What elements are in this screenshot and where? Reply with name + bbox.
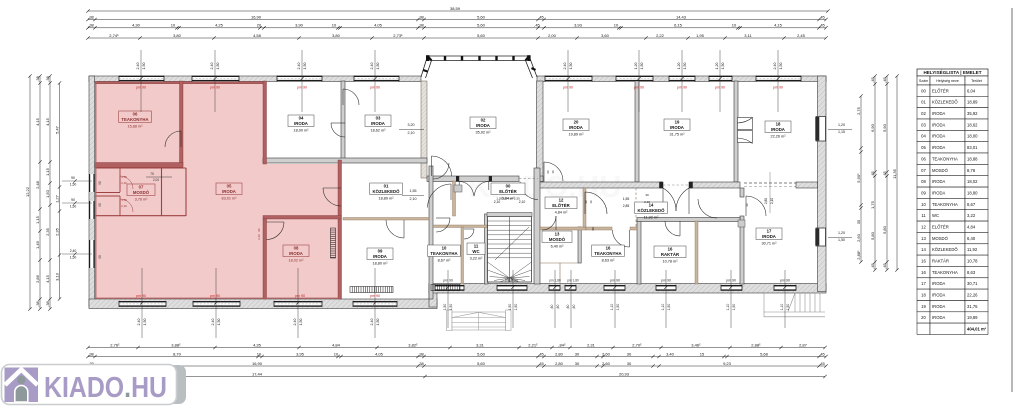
svg-text:ELŐTÉR: ELŐTÉR <box>932 225 949 230</box>
svg-text:05: 05 <box>921 145 926 150</box>
svg-text:10,78: 10,78 <box>967 259 978 264</box>
radiator room 10 <box>431 285 460 291</box>
svg-text:16: 16 <box>921 270 926 275</box>
svg-text:,38: ,38 <box>418 351 424 356</box>
svg-text:30: 30 <box>627 361 632 366</box>
bottom wall windows left section <box>119 301 166 307</box>
svg-text:2,10: 2,10 <box>121 181 127 185</box>
svg-text:2,45: 2,45 <box>797 33 806 38</box>
room 16 teakonyha label <box>592 245 625 257</box>
svg-text:4,15: 4,15 <box>45 117 50 126</box>
svg-text:30: 30 <box>627 351 632 356</box>
bottom dimension chain row B <box>88 356 826 358</box>
svg-text:,38: ,38 <box>418 361 424 366</box>
red wall between 05 and 04 <box>263 81 267 164</box>
svg-text:22,26 m²: 22,26 m² <box>771 134 787 138</box>
svg-text:30,71: 30,71 <box>967 281 978 286</box>
svg-text:3,22 m²: 3,22 m² <box>470 256 484 260</box>
svg-text:9,23: 9,23 <box>723 361 732 366</box>
svg-text:10: 10 <box>614 23 619 28</box>
room 02 iroda label <box>470 117 496 129</box>
svg-text:WC: WC <box>472 249 479 254</box>
top dimension chain row 2 <box>88 19 826 21</box>
svg-text:IRODA: IRODA <box>371 121 385 126</box>
svg-text:1,20: 1,20 <box>634 63 638 70</box>
svg-text:2,87: 2,87 <box>799 342 808 347</box>
svg-text:15,88 m²: 15,88 m² <box>128 124 144 128</box>
svg-text:2,40: 2,40 <box>293 319 297 326</box>
svg-text:10: 10 <box>551 170 555 174</box>
svg-text:6,04: 6,04 <box>967 88 976 93</box>
svg-text:1,50: 1,50 <box>449 304 453 311</box>
svg-text:1,27: 1,27 <box>55 194 60 203</box>
svg-text:WC: WC <box>932 213 939 218</box>
partition right of raktar <box>695 221 698 284</box>
svg-text:RAKTÁR: RAKTÁR <box>661 252 680 257</box>
svg-text:KÖZLEKEDŐ: KÖZLEKEDŐ <box>638 208 666 213</box>
wall between 16 teakonyha and 15 raktar <box>637 221 641 284</box>
left wall window dimensions <box>62 180 92 182</box>
svg-text:00: 00 <box>921 88 926 93</box>
room 13 mosdo label <box>542 231 572 243</box>
svg-text:3,80: 3,80 <box>173 33 182 38</box>
svg-text:83,01 m²: 83,01 m² <box>222 196 238 200</box>
svg-text:1,50: 1,50 <box>779 63 783 70</box>
svg-text:1,50: 1,50 <box>667 304 671 311</box>
svg-text:3,60: 3,60 <box>601 33 610 38</box>
wall between 13 and 16 teakonyha <box>578 227 581 263</box>
svg-text:2,75: 2,75 <box>856 106 861 115</box>
svg-text:2,48: 2,48 <box>35 180 40 189</box>
svg-text:IRODA: IRODA <box>932 134 945 139</box>
svg-text:IRODA: IRODA <box>932 315 945 320</box>
svg-text:2,21⁵: 2,21⁵ <box>528 342 538 347</box>
svg-text:4,15: 4,15 <box>774 23 783 28</box>
svg-text:04: 04 <box>921 134 926 139</box>
svg-text:10: 10 <box>334 351 339 356</box>
svg-text:5,60: 5,60 <box>477 361 486 366</box>
wall between rooms 20 and 19 <box>635 81 639 182</box>
svg-text:IRODA: IRODA <box>222 189 236 194</box>
svg-text:5,90⁵: 5,90⁵ <box>856 173 861 183</box>
bottom dimension chain row D <box>88 376 825 378</box>
svg-text:2,86: 2,86 <box>35 274 40 283</box>
svg-text:,45: ,45 <box>538 14 544 19</box>
svg-text:4,15: 4,15 <box>45 274 50 283</box>
svg-text:,45: ,45 <box>819 14 825 19</box>
svg-text:1,15: 1,15 <box>45 167 50 176</box>
svg-text:IRODA: IRODA <box>670 125 684 130</box>
svg-text:TEAKONYHA: TEAKONYHA <box>594 251 621 256</box>
radiator room 09 <box>350 287 393 293</box>
svg-text:1,20: 1,20 <box>838 231 845 235</box>
svg-text:2,00: 2,00 <box>548 33 557 38</box>
bottom wall windows mid and right section <box>435 285 464 291</box>
svg-text:6,15: 6,15 <box>674 23 683 28</box>
right dimension chain col 2 <box>874 76 876 270</box>
svg-text:,38: ,38 <box>88 23 94 28</box>
room 14 kozlekedo label <box>635 202 668 214</box>
svg-text:IRODA: IRODA <box>932 145 945 150</box>
svg-text:12,22: 12,22 <box>25 186 30 197</box>
faint kiado.hu watermark <box>468 169 621 204</box>
svg-text:17,44: 17,44 <box>252 371 263 376</box>
small box in room 17 <box>738 220 745 227</box>
svg-text:2,73⁵: 2,73⁵ <box>393 33 403 38</box>
svg-text:2,40: 2,40 <box>370 63 374 70</box>
bottom window axis lines and size labels mid right <box>447 270 449 328</box>
svg-text:2,10: 2,10 <box>408 131 415 135</box>
red wall right edge of pink zone <box>338 160 342 299</box>
svg-text:2,40: 2,40 <box>297 63 301 70</box>
svg-text:pm 90: pm 90 <box>295 294 305 298</box>
room 04 iroda label <box>288 115 314 127</box>
svg-text:01: 01 <box>921 100 926 105</box>
kiado.hu logo <box>2 365 187 405</box>
svg-text:16: 16 <box>921 259 926 264</box>
svg-text:1,50: 1,50 <box>786 304 790 311</box>
bottom exterior wall left deep section <box>89 299 437 309</box>
svg-text:3,93: 3,93 <box>574 23 583 28</box>
svg-text:10: 10 <box>332 23 337 28</box>
svg-text:IRODA: IRODA <box>932 122 945 127</box>
svg-text:KIADO.HU: KIADO.HU <box>44 372 167 404</box>
svg-text:1,50: 1,50 <box>70 205 77 209</box>
red wall bottom of room 06 <box>95 163 183 168</box>
top exterior wall left segment <box>89 76 421 82</box>
svg-text:2,70⁵: 2,70⁵ <box>632 342 642 347</box>
svg-text:1,20 6,04 m² 2,30: 1,20 6,04 m² 2,30 <box>496 197 520 201</box>
svg-text:10: 10 <box>171 23 176 28</box>
small box in entry 00 <box>454 185 462 192</box>
svg-text:,38: ,38 <box>418 14 424 19</box>
svg-text:1,50: 1,50 <box>508 304 512 311</box>
svg-text:2,40: 2,40 <box>70 249 77 253</box>
svg-text:3,90: 3,90 <box>295 23 304 28</box>
svg-text:5,47: 5,47 <box>55 125 60 134</box>
radiator room 05 right edge <box>331 228 336 258</box>
svg-text:IRODA: IRODA <box>476 123 490 128</box>
entry 00 label <box>491 183 525 195</box>
svg-text:4,30: 4,30 <box>132 23 141 28</box>
partition left of entry 00 <box>453 181 456 216</box>
svg-text:1,50: 1,50 <box>514 304 518 311</box>
svg-text:30: 30 <box>575 361 580 366</box>
wall under 14 over raktar <box>637 218 740 222</box>
svg-text:3,11: 3,11 <box>744 33 752 38</box>
svg-text:2,60: 2,60 <box>856 233 861 242</box>
svg-text:1,55: 1,55 <box>623 197 630 201</box>
svg-text:2,10: 2,10 <box>121 204 127 208</box>
stall partitions below 13 <box>540 262 578 264</box>
bottom exterior wall step <box>429 284 437 307</box>
svg-text:2,10: 2,10 <box>519 200 526 204</box>
svg-text:,45: ,45 <box>870 76 875 82</box>
svg-text:2,00: 2,00 <box>153 178 159 182</box>
svg-text:1,15: 1,15 <box>35 215 40 224</box>
svg-text:2,10: 2,10 <box>257 234 261 240</box>
svg-text:90: 90 <box>71 176 75 180</box>
svg-text:15: 15 <box>700 351 705 356</box>
dashed partition in corridor 14 <box>635 188 637 227</box>
svg-text:6,90: 6,90 <box>870 123 875 132</box>
right dimension chain col 1 <box>860 96 862 262</box>
svg-text:,38: ,38 <box>35 300 40 306</box>
red wall between 06 and 05 <box>180 81 184 166</box>
left dimension chain col 4 <box>59 83 61 299</box>
svg-text:2,35: 2,35 <box>55 227 60 236</box>
svg-text:TEAKONYHA: TEAKONYHA <box>932 156 958 161</box>
svg-text:2,10: 2,10 <box>644 200 650 204</box>
svg-text:19: 19 <box>921 304 926 309</box>
wall under room 12 over 13 <box>540 227 586 230</box>
svg-text:1,49: 1,49 <box>35 240 40 249</box>
svg-text:3,40: 3,40 <box>666 351 675 356</box>
wall left of room 17 <box>740 188 744 197</box>
room 09 iroda label <box>367 248 393 260</box>
svg-text:2,88⁵: 2,88⁵ <box>751 342 761 347</box>
far right frame line <box>1011 8 1013 392</box>
svg-text:IRODA: IRODA <box>932 304 945 309</box>
svg-text:20,93: 20,93 <box>619 371 630 376</box>
svg-text:IRODA: IRODA <box>932 293 945 298</box>
svg-text:31,75: 31,75 <box>967 304 978 309</box>
room 06 teakonyha label <box>119 111 152 123</box>
svg-text:18,62: 18,62 <box>967 122 978 127</box>
svg-text:,45: ,45 <box>534 23 540 28</box>
svg-text:4,05: 4,05 <box>375 351 384 356</box>
svg-text:07: 07 <box>921 168 926 173</box>
svg-text:,45: ,45 <box>819 361 825 366</box>
svg-text:20: 20 <box>257 23 262 28</box>
red wall between 05 and 08 horizontal <box>263 216 341 220</box>
svg-text:,60: ,60 <box>550 305 554 310</box>
room 10 teakonyha label <box>428 245 461 257</box>
svg-text:1,50: 1,50 <box>721 63 725 70</box>
svg-text:18,80: 18,80 <box>967 190 978 195</box>
svg-text:1,20: 1,20 <box>838 123 845 127</box>
svg-text:14,43: 14,43 <box>676 14 687 19</box>
right dimension chain col 4 total <box>896 76 898 270</box>
svg-text:5,60: 5,60 <box>477 23 486 28</box>
svg-text:,60: ,60 <box>566 305 570 310</box>
svg-text:MOSDÓ: MOSDÓ <box>133 190 150 195</box>
svg-text:,38: ,38 <box>45 75 50 81</box>
bay corner posts <box>426 55 429 61</box>
svg-text:2,60: 2,60 <box>602 361 611 366</box>
svg-text:90: 90 <box>98 203 102 207</box>
axis line through opening <box>769 172 771 213</box>
wall between room 02 and 20 <box>537 81 544 182</box>
svg-text:,84⁵: ,84⁵ <box>558 342 566 347</box>
svg-text:1,10: 1,10 <box>610 304 614 311</box>
right wall lower window <box>816 228 826 246</box>
svg-text:TEAKONYHA: TEAKONYHA <box>932 270 958 275</box>
wall pillar right of room 03 <box>421 81 427 178</box>
svg-text:8,70: 8,70 <box>173 351 182 356</box>
svg-text:18,02 m²: 18,02 m² <box>289 258 305 262</box>
svg-text:5,68: 5,68 <box>760 351 769 356</box>
wall under room 02 entry side <box>427 176 519 182</box>
bottom exterior wall mid right section <box>429 284 826 294</box>
svg-text:1,50: 1,50 <box>142 63 146 70</box>
svg-text:19,89: 19,89 <box>967 315 978 320</box>
svg-text:pm 90: pm 90 <box>210 294 220 298</box>
svg-text:4,84: 4,84 <box>967 225 976 230</box>
svg-text:20: 20 <box>546 170 550 174</box>
svg-text:2,40: 2,40 <box>136 63 140 70</box>
svg-text:2,40: 2,40 <box>370 319 374 326</box>
room 20 iroda label <box>563 119 589 131</box>
svg-text:1,50: 1,50 <box>376 63 380 70</box>
svg-text:11: 11 <box>921 213 926 218</box>
room 19 iroda label <box>664 119 690 131</box>
room 15 raktar label <box>654 246 686 258</box>
svg-text:1,10: 1,10 <box>661 304 665 311</box>
svg-text:2,40: 2,40 <box>137 319 141 326</box>
wall between rooms 19 and 18 <box>734 81 738 182</box>
svg-text:10: 10 <box>589 200 593 204</box>
svg-text:TEAKONYHA: TEAKONYHA <box>121 117 148 122</box>
svg-text:,38: ,38 <box>35 75 40 81</box>
svg-text:8,63: 8,63 <box>967 270 976 275</box>
left dimension chain total <box>29 76 31 309</box>
svg-text:31,75 m²: 31,75 m² <box>670 132 686 136</box>
svg-text:38,59: 38,59 <box>450 6 461 11</box>
svg-text:,45: ,45 <box>819 351 825 356</box>
svg-text:4,25: 4,25 <box>215 23 224 28</box>
room 05 iroda label <box>216 183 242 195</box>
top dimension chain row 1 total <box>88 10 828 12</box>
svg-text:12: 12 <box>921 225 926 230</box>
svg-text:ELŐTÉR: ELŐTÉR <box>499 189 517 194</box>
svg-text:IRODA: IRODA <box>294 121 308 126</box>
svg-text:KÖZLEKEDŐ: KÖZLEKEDŐ <box>932 247 958 252</box>
svg-text:90: 90 <box>98 181 102 185</box>
svg-text:2,88⁵: 2,88⁵ <box>856 250 861 260</box>
svg-text:RAKTÁR: RAKTÁR <box>932 259 949 264</box>
svg-text:3,80: 3,80 <box>332 33 341 38</box>
stairwell <box>487 213 532 283</box>
svg-text:1,50: 1,50 <box>569 63 573 70</box>
svg-text:Szám: Szám <box>919 79 928 83</box>
solid wall piece right of dashed opening <box>796 182 818 188</box>
partition between corridor 01 and room 09 <box>343 218 429 221</box>
svg-text:09: 09 <box>921 190 926 195</box>
svg-text:HELYISÉGLISTA | EMELET: HELYISÉGLISTA | EMELET <box>923 68 981 75</box>
svg-text:4,05: 4,05 <box>374 23 383 28</box>
svg-text:ELŐTÉR: ELŐTÉR <box>552 203 570 208</box>
svg-text:18,88: 18,88 <box>967 156 978 161</box>
svg-text:2,40: 2,40 <box>210 63 214 70</box>
table helyiseglista emelet <box>917 68 988 334</box>
svg-text:,45: ,45 <box>538 351 544 356</box>
left dimension chain col 2 <box>39 76 41 309</box>
wall between rooms 04 and 03 <box>341 81 345 160</box>
svg-text:1,50: 1,50 <box>216 63 220 70</box>
svg-text:IRODA: IRODA <box>932 179 945 184</box>
svg-text:90: 90 <box>591 227 595 231</box>
svg-text:3,20: 3,20 <box>408 123 415 127</box>
svg-text:1,20: 1,20 <box>677 63 681 70</box>
svg-text:90: 90 <box>257 228 261 232</box>
svg-text:1,75: 1,75 <box>870 200 875 209</box>
svg-text:4,58: 4,58 <box>253 33 262 38</box>
svg-text:MOSDÓ: MOSDÓ <box>932 236 949 241</box>
svg-text:3,31: 3,31 <box>476 342 485 347</box>
bottom dimension chain row C <box>88 365 826 367</box>
svg-text:02: 02 <box>921 111 926 116</box>
svg-text:2,10: 2,10 <box>494 200 501 204</box>
svg-text:3,46⁵: 3,46⁵ <box>691 342 701 347</box>
svg-text:5,60: 5,60 <box>477 33 486 38</box>
svg-text:Terület: Terület <box>971 79 982 83</box>
svg-text:1,10: 1,10 <box>726 304 730 311</box>
svg-text:06: 06 <box>921 156 926 161</box>
top exterior wall right segment <box>537 76 826 82</box>
svg-text:1,50: 1,50 <box>443 304 447 311</box>
svg-text:5,80: 5,80 <box>870 231 875 240</box>
svg-text:90: 90 <box>71 198 75 202</box>
partition between 10 teakonyha and wc <box>461 227 464 284</box>
svg-text:,38: ,38 <box>418 23 424 28</box>
svg-text:404,01 m²: 404,01 m² <box>967 327 987 332</box>
svg-text:5,60: 5,60 <box>477 14 486 19</box>
svg-text:5,80: 5,80 <box>882 225 887 234</box>
svg-text:30: 30 <box>575 351 580 356</box>
svg-text:1,75: 1,75 <box>121 175 127 179</box>
bottom dimension chain row A <box>88 347 825 349</box>
svg-text:1,50: 1,50 <box>732 304 736 311</box>
svg-text:17: 17 <box>921 281 926 286</box>
red wall top edge of pink zone <box>95 82 263 84</box>
svg-text:5,90: 5,90 <box>882 123 887 132</box>
svg-text:18: 18 <box>921 293 926 298</box>
corridor 01 label <box>370 183 403 195</box>
svg-text:18,89 m²: 18,89 m² <box>379 196 395 200</box>
svg-text:TEAKONYHA: TEAKONYHA <box>430 251 457 256</box>
svg-text:,38: ,38 <box>88 14 94 19</box>
svg-text:TEAKONYHA: TEAKONYHA <box>932 202 958 207</box>
mosdo stall doors <box>120 176 133 212</box>
svg-text:IRODA: IRODA <box>762 234 776 239</box>
svg-text:30,71 m²: 30,71 m² <box>762 241 778 245</box>
svg-text:10: 10 <box>732 23 737 28</box>
svg-text:16,90: 16,90 <box>252 361 263 366</box>
svg-text:3,82⁵: 3,82⁵ <box>408 342 418 347</box>
svg-text:1,20: 1,20 <box>715 63 719 70</box>
thin red line bottom of pink zone <box>95 297 341 299</box>
svg-text:IRODA: IRODA <box>932 190 945 195</box>
svg-text:Helyiség neve: Helyiség neve <box>936 79 959 83</box>
svg-text:1,15: 1,15 <box>838 130 845 134</box>
thin red line left of pink zone <box>95 81 97 299</box>
interior door arcs <box>165 89 766 247</box>
svg-text:3,13: 3,13 <box>55 272 60 281</box>
svg-text:8,76: 8,76 <box>967 168 976 173</box>
svg-text:MOSDÓ: MOSDÓ <box>549 237 566 242</box>
room 18 iroda label <box>765 121 791 133</box>
svg-text:,38: ,38 <box>45 300 50 306</box>
top window axis lines and size labels <box>140 50 142 112</box>
svg-text:2,80: 2,80 <box>555 361 564 366</box>
svg-text:18,02: 18,02 <box>967 179 978 184</box>
svg-text:1,50: 1,50 <box>217 319 221 326</box>
svg-text:11,92: 11,92 <box>967 247 978 252</box>
top wall windows <box>119 76 164 82</box>
svg-text:11,92 m²: 11,92 m² <box>644 215 659 219</box>
svg-text:8,63 m²: 8,63 m² <box>602 258 616 262</box>
